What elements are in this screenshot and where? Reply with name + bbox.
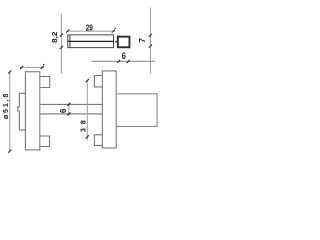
side view top tab	[94, 76, 102, 87]
svg-text:6: 6	[122, 51, 126, 61]
dim diameter ticks	[8, 70, 11, 152]
side view: main rect	[94, 71, 116, 148]
flange top tab	[40, 77, 50, 88]
flange bottom tab	[40, 136, 50, 147]
unlabeled dim line	[20, 66, 45, 68]
bar end cap line	[69, 35, 71, 48]
svg-text:6: 6	[59, 108, 68, 113]
dim 38 ticks	[86, 79, 89, 139]
dim 8,2 ticks	[60, 34, 63, 50]
dim 8,2 line	[60, 14, 62, 74]
dim 29 tick left	[66, 30, 115, 33]
dim 38 line	[86, 80, 88, 141]
svg-text:7: 7	[137, 38, 147, 43]
bar middle line nub	[115, 41, 117, 43]
svg-text:ø51,8: ø51,8	[1, 94, 10, 120]
dim 6 mid ticks	[67, 103, 70, 116]
square tube section	[118, 37, 130, 48]
dim 6 top line	[92, 60, 156, 62]
dim 6 mid line	[68, 103, 70, 116]
top view: bar outline	[68, 35, 114, 48]
dim 7 line	[149, 8, 151, 74]
svg-text:8,2: 8,2	[50, 32, 59, 43]
dim 29 tick right	[112, 30, 115, 33]
unlabeled dim ticks	[20, 66, 44, 69]
dim 29 line	[66, 30, 115, 32]
bar middle line	[68, 40, 114, 42]
front view: flange main rect	[18, 72, 103, 150]
dim 7 ticks	[149, 34, 152, 48]
middle bar bottom line	[40, 113, 103, 115]
middle bar top line	[40, 103, 103, 105]
side view bottom tab	[94, 135, 102, 146]
dim 6 top ticks	[117, 60, 130, 63]
dim diameter 51,8 line	[9, 71, 11, 153]
svg-text:29: 29	[86, 23, 94, 32]
far right plate rect	[116, 94, 157, 127]
flange left boss with notch	[18, 93, 26, 130]
